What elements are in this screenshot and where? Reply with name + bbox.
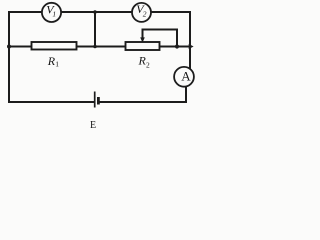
svg-text:A: A bbox=[181, 69, 191, 84]
svg-text:E: E bbox=[90, 120, 96, 131]
svg-text:2: 2 bbox=[143, 9, 147, 18]
svg-text:1: 1 bbox=[55, 60, 59, 69]
svg-text:1: 1 bbox=[52, 10, 56, 19]
svg-text:2: 2 bbox=[146, 61, 150, 70]
